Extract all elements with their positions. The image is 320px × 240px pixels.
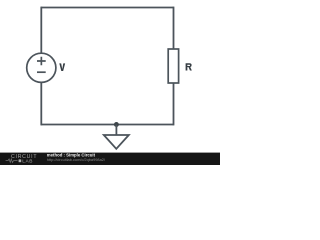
logo waveform [6, 159, 18, 163]
voltage source V1 [27, 53, 56, 82]
logo block [19, 159, 22, 162]
svg-text:LAB: LAB [22, 158, 33, 164]
label R [186, 63, 192, 70]
ground [104, 125, 129, 149]
wire right lower [173, 83, 175, 125]
wire left lower [40, 83, 42, 126]
node junction dot [114, 122, 119, 127]
wire left upper [40, 7, 42, 53]
footer bar [0, 153, 220, 165]
label V [59, 63, 65, 71]
wire top [41, 7, 173, 9]
svg-text:http://circuitlab.com/c/2qba99: http://circuitlab.com/c/2qba998a2/ [47, 157, 106, 162]
resistor R [168, 49, 178, 83]
wire right upper [173, 7, 175, 49]
wire bottom [41, 124, 173, 126]
